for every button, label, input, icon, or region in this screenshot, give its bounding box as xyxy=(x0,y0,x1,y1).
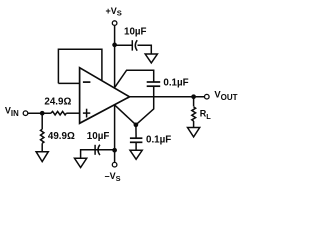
feedback wire loop xyxy=(58,49,102,83)
minus sign xyxy=(83,81,91,83)
wire C2 to ground xyxy=(81,150,96,158)
VOUT terminal circle xyxy=(205,94,210,99)
capacitor C2 10uF straight plate xyxy=(94,145,96,155)
resistor R2 49.9 ohm xyxy=(41,129,44,143)
svg-text:10µF: 10µF xyxy=(124,27,147,38)
resistor RL xyxy=(192,107,196,121)
svg-text:49.9Ω: 49.9Ω xyxy=(48,131,75,142)
+VS terminal circle xyxy=(112,21,117,26)
svg-text:0.1µF: 0.1µF xyxy=(146,134,171,145)
wire -VS rail xyxy=(114,105,116,162)
wire node down to R2 xyxy=(41,113,43,129)
capacitor C2 10uF curved plate xyxy=(98,145,100,155)
wire VIN to node xyxy=(28,112,51,114)
ground (under C2) xyxy=(75,158,87,167)
capacitor C4 0.1uF bottom xyxy=(130,137,143,139)
node dot +VS xyxy=(112,43,117,48)
wire -V pin diagonal to node xyxy=(115,105,136,125)
svg-text:RL: RL xyxy=(200,108,212,121)
node dot -VS xyxy=(112,148,117,153)
svg-text:VIN: VIN xyxy=(5,105,19,118)
-VS terminal circle xyxy=(112,162,117,167)
wire R1 to op-amp + input xyxy=(66,112,79,114)
wire from +VS node to C1 xyxy=(115,44,133,46)
ground (under RL) xyxy=(188,128,200,137)
wire +V pin to C3 xyxy=(115,70,154,87)
capacitor C1 10uF straight plate xyxy=(131,40,133,50)
ground (input divider) xyxy=(36,152,48,162)
svg-text:+VS: +VS xyxy=(106,6,122,18)
wire node to C4 xyxy=(135,125,137,138)
wire inverting input xyxy=(58,82,79,84)
svg-text:24.9Ω: 24.9Ω xyxy=(44,97,71,108)
plus sign xyxy=(83,112,90,114)
wire C3 down across output to -V node xyxy=(136,86,154,125)
wire R2 to ground xyxy=(41,143,43,151)
node dot output xyxy=(191,94,196,99)
ground (top right) xyxy=(145,54,157,63)
wire RL to ground xyxy=(193,121,195,127)
wire output node to RL xyxy=(193,97,195,107)
svg-text:0.1µF: 0.1µF xyxy=(163,78,188,89)
node dot C3/C4 junction xyxy=(134,122,139,127)
svg-text:10µF: 10µF xyxy=(87,131,110,142)
capacitor C1 10uF curved plate xyxy=(135,40,137,51)
wire C4 to ground xyxy=(135,142,137,150)
op-amp U1 xyxy=(80,68,130,124)
capacitor C3 0.1uF top xyxy=(147,81,161,83)
node dot input xyxy=(40,111,45,116)
wire C1 to ground xyxy=(138,45,152,54)
svg-text:VOUT: VOUT xyxy=(214,89,237,102)
resistor R1 24.9 ohm xyxy=(51,111,66,115)
ground (under C4) xyxy=(130,150,142,159)
wire +VS rail (top) xyxy=(114,26,116,88)
VIN terminal circle xyxy=(23,111,28,116)
wire -VS node to C2 xyxy=(95,149,114,151)
wire output xyxy=(130,96,205,98)
svg-text:–VS: –VS xyxy=(105,171,121,183)
